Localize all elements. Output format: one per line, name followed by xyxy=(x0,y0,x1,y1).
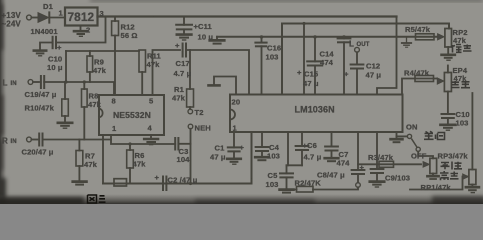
capacitor C9 xyxy=(376,132,378,169)
wire rail drop to C10a branch xyxy=(57,17,106,43)
capacitor C2 plates xyxy=(162,177,164,191)
junction NEH drop on bottom rail xyxy=(189,182,192,185)
capacitor C19 plates xyxy=(40,76,42,88)
capacitor C12 xyxy=(351,64,364,66)
wire EP4 bottom to C10b xyxy=(447,92,449,114)
potentiometer RP3 xyxy=(430,158,437,173)
arrow to RP3 wiper xyxy=(423,162,430,168)
wire RP1 feed xyxy=(410,177,469,190)
junction R6 top xyxy=(128,142,131,145)
amplifier U3 LM1036N box xyxy=(230,95,403,133)
ground under R10 xyxy=(58,122,72,125)
junction bias drop on L-in wire xyxy=(64,80,67,83)
wire L-in to C19 xyxy=(33,81,39,83)
wire C19 to U1 pin stub xyxy=(44,82,114,95)
arrow to RP2 wiper xyxy=(438,34,445,40)
wire R8 to R-in line xyxy=(83,107,85,140)
hanzi yinliang (volume) xyxy=(451,81,460,88)
ground under 7812 pin 2 xyxy=(74,30,88,33)
hanzi diyin (bass) xyxy=(451,45,462,53)
node NEH terminal xyxy=(188,124,193,129)
hanzi gaoyin (treble) xyxy=(440,171,449,180)
wire C3 to U1 riser xyxy=(111,135,175,144)
wire U3 output bus top xyxy=(282,24,449,95)
wire +12V rail xyxy=(98,15,397,17)
capacitor C14 xyxy=(343,37,345,39)
ground tap of top bus xyxy=(216,37,218,40)
wire bottom feedback rail xyxy=(103,132,252,184)
ground under R7 xyxy=(73,180,87,183)
wire to loudness switch xyxy=(397,135,408,137)
ground under RP2 xyxy=(442,53,455,56)
wire R4 net xyxy=(402,79,437,95)
resistor R9 xyxy=(89,51,91,56)
wire OFF to RP3 top xyxy=(418,152,433,159)
wire R12 to U1 pin 8 xyxy=(114,36,116,96)
ground under RP3 xyxy=(432,174,434,176)
ground under C1 xyxy=(227,158,241,161)
capacitor C8 xyxy=(357,132,359,170)
junction C16 on bus xyxy=(260,35,263,38)
wire R11 to U1 top xyxy=(141,72,143,95)
junction on output bus xyxy=(302,22,305,25)
capacitor C4 xyxy=(261,132,263,147)
pin 2 stub xyxy=(80,26,82,31)
capacitor C16 xyxy=(261,37,263,43)
top edge smear xyxy=(90,0,483,2)
bottom dark band xyxy=(0,194,483,204)
ground under C10a xyxy=(34,49,46,52)
small ground under bus xyxy=(406,37,408,43)
potentiometer RP2 xyxy=(445,29,452,48)
wire NEH drop xyxy=(190,129,192,184)
wire bias node horizontal xyxy=(66,50,139,52)
ground under C5 xyxy=(280,188,294,191)
capacitor C11 xyxy=(183,17,185,25)
wire RP2 bottom to ground xyxy=(447,47,449,54)
wire AC-ground bus xyxy=(217,36,438,38)
switch S1 pole ON xyxy=(407,134,411,138)
arrow to EP4 wiper xyxy=(437,78,444,84)
op-amp U1 NE5532N box xyxy=(99,95,164,135)
wire C3 net xyxy=(180,143,191,145)
capacitor C10a plates xyxy=(55,37,57,48)
potentiometer RP1 xyxy=(469,170,476,185)
switch S1 arm xyxy=(412,139,417,146)
resistor R2 xyxy=(297,186,314,192)
notch of U3 xyxy=(230,110,235,120)
resistor R5 in bus xyxy=(416,34,435,40)
ground under C9 xyxy=(370,180,384,183)
arrow to RP1 wiper xyxy=(463,174,469,180)
capacitor C10b xyxy=(442,113,455,115)
capacitor C20 plates xyxy=(38,134,40,146)
junction R8 on L-in wire xyxy=(83,80,86,83)
wire D1 to U2 xyxy=(50,17,65,19)
wire C20 to U1 xyxy=(43,139,112,141)
wire U1 pin1 drop to bottom rail xyxy=(102,135,104,184)
ground under C10b xyxy=(441,123,456,126)
resistor R4 xyxy=(415,76,434,82)
wire C17 to U3 pin xyxy=(186,50,249,95)
diode D1 xyxy=(38,13,49,23)
wire rail to U3 power pin xyxy=(377,17,397,95)
node R-in terminal xyxy=(27,137,32,142)
node L OUT terminal xyxy=(355,47,360,52)
ground under C4 xyxy=(255,156,269,159)
notch of U1 xyxy=(99,109,103,118)
resistor R8 xyxy=(83,82,85,89)
potentiometer EP4 xyxy=(444,73,451,92)
mini ground bar xyxy=(209,84,220,87)
capacitor C6 xyxy=(301,132,303,146)
wire C17 net riser from U1 pin 5 xyxy=(153,50,181,95)
wire R3 net xyxy=(358,163,421,165)
node under C8 terminal xyxy=(356,183,361,188)
wire VIN to D1 xyxy=(31,17,38,19)
regulator U2 7812 box xyxy=(65,8,98,26)
hanzi dengxiang (loudness) xyxy=(424,131,434,139)
wire C5 bus xyxy=(287,164,303,166)
resistor R7 xyxy=(78,140,80,151)
ground under U3 right xyxy=(396,132,398,138)
wire U3 topleft pin to mini ground xyxy=(214,77,236,95)
wire second drop to U3 xyxy=(303,24,305,95)
ground under RP1 xyxy=(471,185,473,187)
capacitor C7 xyxy=(331,132,333,146)
hanzi tusan (figure 3) xyxy=(88,195,97,203)
wire R2 net xyxy=(313,187,358,189)
left edge blobs xyxy=(0,4,6,208)
capacitor C15 xyxy=(314,37,316,62)
ground under C11 xyxy=(177,33,192,36)
switch S1 throw OFF xyxy=(416,147,420,151)
left edge smudge xyxy=(0,0,7,204)
junction C14 on bus xyxy=(342,35,345,38)
capacitor C3 plates xyxy=(177,138,179,150)
wire U3 pin to C5 bus xyxy=(287,132,289,165)
node L-in terminal xyxy=(28,80,33,85)
resistor R3 xyxy=(379,161,394,167)
wire L OUT to C12 xyxy=(356,52,358,64)
component small box in bottom rail xyxy=(114,179,127,186)
wire bias left drop xyxy=(65,51,67,82)
capacitor C17 plates xyxy=(182,44,184,57)
resistor R6 xyxy=(129,144,131,150)
junction C15 on bus xyxy=(313,35,316,38)
resistor R11 xyxy=(139,50,146,72)
ground under C7 xyxy=(325,157,339,160)
resistor R12 xyxy=(114,17,116,22)
node T2 terminal xyxy=(188,109,193,114)
resistor R1 xyxy=(189,50,191,89)
ground under U1 pin 4 xyxy=(150,135,152,138)
hanzi pingheng (balance) xyxy=(441,163,450,170)
wire C10a to ground xyxy=(40,43,53,50)
resistor R10 xyxy=(64,82,66,99)
capacitor C5 xyxy=(286,165,288,173)
node VIN terminal xyxy=(27,15,32,20)
wire R-in to C20 xyxy=(31,139,37,141)
wire RP1 top riser xyxy=(471,93,473,170)
capacitor C1 xyxy=(233,132,235,148)
